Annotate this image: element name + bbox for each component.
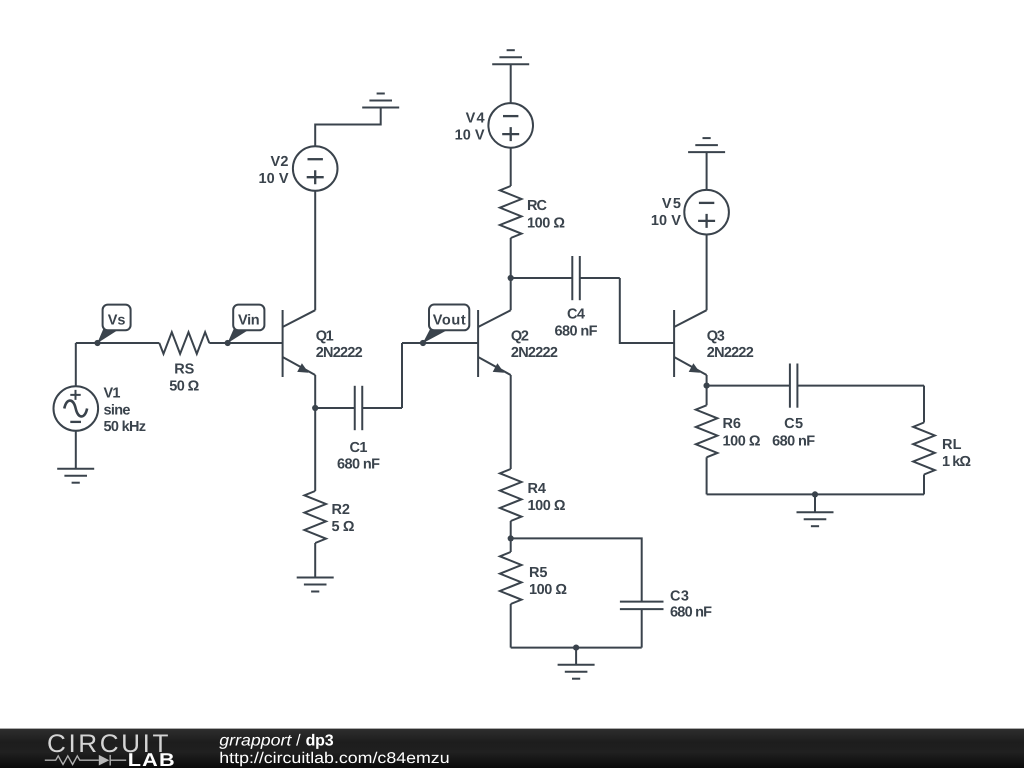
wire stub to ground	[575, 648, 577, 665]
wire V1 top to main line	[75, 343, 77, 386]
svg-text:10 V: 10 V	[455, 127, 485, 143]
resistor RC 100 ohm	[500, 148, 565, 278]
svg-text:sine: sine	[104, 403, 131, 419]
resistor RL 1 kohm	[913, 386, 971, 495]
footer brand bar	[0, 729, 1024, 768]
wire bottom of R6/RL loop	[707, 493, 924, 495]
junction dot output ground node	[812, 491, 818, 497]
junction dot Q1 emitter node	[312, 405, 318, 411]
logo resistor-diode doodle	[45, 755, 126, 766]
ground below V1	[57, 469, 94, 483]
wire RS to Q1 base	[209, 342, 282, 344]
svg-text:R2: R2	[332, 502, 351, 518]
svg-text:C4: C4	[567, 307, 585, 323]
wire V4 top to ground	[510, 64, 512, 103]
svg-text:V4: V4	[466, 110, 485, 126]
svg-text:100 Ω: 100 Ω	[723, 434, 761, 450]
svg-text:V1: V1	[104, 386, 121, 402]
svg-text:2N2222: 2N2222	[511, 345, 558, 361]
capacitor C4 680 nF	[511, 256, 620, 339]
svg-text:R4: R4	[528, 481, 547, 497]
ground below R2	[297, 578, 334, 592]
svg-text:V2: V2	[271, 154, 289, 170]
wire V2 top to ground	[315, 108, 381, 147]
wire C4 down to Q3 base	[620, 278, 674, 343]
svg-text:100 Ω: 100 Ω	[527, 216, 565, 232]
wire V1 bottom to ground	[75, 431, 77, 469]
junction dot node Vs	[94, 340, 100, 346]
resistor R6 100 ohm	[696, 386, 761, 495]
wire stub to ground	[814, 494, 816, 512]
ground below R6/RL loop	[797, 512, 834, 526]
svg-text:100 Ω: 100 Ω	[528, 498, 566, 514]
resistor R5 100 ohm	[500, 538, 567, 647]
svg-text:R6: R6	[723, 416, 742, 432]
junction dot RC bottom node	[508, 275, 514, 281]
svg-text:Vout: Vout	[433, 313, 466, 329]
svg-text:Vs: Vs	[108, 313, 126, 329]
wire to Q2 base	[402, 342, 478, 344]
svg-text:50 Ω: 50 Ω	[169, 378, 199, 394]
junction dot node Vin	[225, 340, 231, 346]
svg-text:RS: RS	[174, 361, 194, 377]
voltage source V2 10 V	[259, 146, 338, 191]
junction dot Q3 emitter node	[704, 383, 710, 389]
svg-text:Q1: Q1	[316, 329, 334, 345]
svg-text:RC: RC	[527, 198, 548, 214]
wire Q2 collector up to RC	[510, 278, 512, 310]
ground below R5/C3 loop	[558, 665, 595, 679]
resistor RS 50 ohm	[159, 332, 209, 394]
wire Q1 collector up to V2	[314, 191, 316, 310]
transistor Q1 2N2222	[283, 310, 363, 377]
wire Q3 emitter down	[706, 375, 708, 386]
capacitor C5 680 nF	[707, 364, 924, 450]
svg-text:10 V: 10 V	[651, 213, 681, 229]
wire Q2 emitter down to R4	[510, 375, 512, 469]
voltage source V4 10 V	[455, 103, 533, 148]
svg-text:5 Ω: 5 Ω	[332, 519, 355, 535]
svg-text:Q2: Q2	[511, 329, 529, 345]
svg-text:10 V: 10 V	[259, 171, 289, 187]
capacitor C3 680 nF	[620, 589, 712, 648]
resistor R2 5 ohm	[304, 408, 354, 578]
wire C1 up to Vout line	[401, 343, 403, 408]
node Vs flag	[97, 305, 130, 344]
node Vout flag	[423, 305, 470, 344]
transistor Q2 2N2222	[478, 310, 558, 377]
wire R4 node to C3 branch	[511, 538, 642, 601]
svg-text:LAB: LAB	[128, 749, 176, 768]
resistor R4 100 ohm	[500, 469, 566, 538]
ground above V4	[492, 50, 529, 64]
svg-text:100 Ω: 100 Ω	[529, 582, 567, 598]
ground above V5	[688, 138, 725, 152]
junction dot R4 bottom node	[508, 535, 514, 541]
ground above V2	[362, 94, 399, 108]
svg-text:http://circuitlab.com/c84emzu: http://circuitlab.com/c84emzu	[219, 750, 449, 767]
svg-text:2N2222: 2N2222	[316, 345, 363, 361]
svg-text:Vin: Vin	[238, 313, 259, 329]
transistor Q3 2N2222	[674, 310, 754, 377]
svg-text:RL: RL	[942, 437, 962, 453]
svg-text:680 nF: 680 nF	[337, 457, 380, 473]
svg-text:C1: C1	[350, 440, 368, 456]
svg-text:1 kΩ: 1 kΩ	[942, 454, 971, 470]
svg-text:50 kHz: 50 kHz	[104, 419, 147, 435]
svg-text:2N2222: 2N2222	[707, 345, 754, 361]
capacitor C1 680 nF	[315, 386, 402, 473]
node Vin flag	[227, 305, 264, 344]
junction dot loop ground node	[573, 645, 579, 651]
svg-text:680 nF: 680 nF	[670, 605, 712, 621]
wire Q3 collector up to V5	[706, 234, 708, 310]
voltage source V5 10 V	[651, 190, 729, 235]
svg-text:C3: C3	[670, 589, 689, 605]
wire Q1 emitter down	[314, 375, 316, 408]
wire main line left segment	[76, 342, 160, 344]
voltage source V1 sine 50 kHz	[54, 386, 147, 436]
svg-text:R5: R5	[529, 565, 548, 581]
junction dot node Vout	[420, 340, 426, 346]
svg-text:680 nF: 680 nF	[772, 434, 815, 450]
svg-text:V5: V5	[662, 196, 681, 212]
svg-text:grrapport / dp3: grrapport / dp3	[219, 732, 333, 749]
svg-text:C5: C5	[784, 416, 803, 432]
svg-text:Q3: Q3	[707, 329, 725, 345]
wire bottom of R5/C3 loop	[511, 647, 642, 649]
svg-text:680 nF: 680 nF	[555, 323, 598, 339]
wire V5 top to ground	[706, 152, 708, 190]
